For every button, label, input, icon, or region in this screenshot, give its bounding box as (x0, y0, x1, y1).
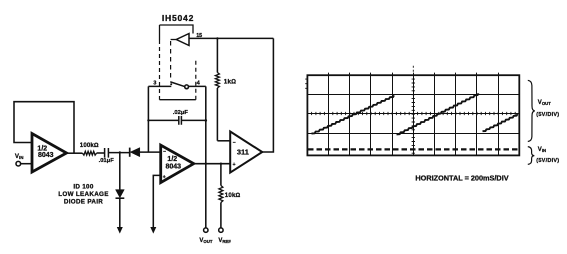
capacitor C1 .01uF (99, 148, 115, 164)
brace VIN (528, 147, 535, 165)
scope left-edge minor ticks (305, 79, 307, 88)
op-amp A1 1/2 8043 (32, 134, 67, 173)
svg-text:LOW LEAKAGE: LOW LEAKAGE (58, 191, 109, 198)
svg-text:8043: 8043 (166, 164, 182, 171)
svg-text:HORIZONTAL = 200mS/DIV: HORIZONTAL = 200mS/DIV (415, 173, 508, 182)
svg-text:VIN: VIN (15, 153, 24, 160)
scope vertical gridlines (329, 73, 499, 156)
wire pin3 vertical to A2 input node (147, 86, 149, 152)
wire switch pin4 side (189, 85, 206, 87)
svg-text:.02μF: .02μF (173, 110, 189, 116)
svg-text:(5V/DIV): (5V/DIV) (536, 158, 559, 164)
svg-text:100kΩ: 100kΩ (80, 142, 99, 149)
svg-text:1kΩ: 1kΩ (224, 79, 237, 86)
svg-text:DIODE PAIR: DIODE PAIR (64, 199, 103, 206)
label IH5042 (162, 13, 194, 23)
wire A2 + input to supply arrow (153, 175, 160, 227)
terminal VOUT (199, 228, 212, 244)
resistor 1kOhm (215, 38, 236, 140)
IH5042 package boundary (dashed box) (160, 25, 196, 100)
junction dot output node (205, 163, 207, 165)
junction dot at D2 branch (119, 151, 121, 153)
resistor 10kOhm (219, 164, 241, 228)
svg-text:10kΩ: 10kΩ (225, 192, 241, 199)
pin 15 label (196, 33, 202, 39)
svg-text:+: + (163, 174, 166, 180)
junction dot pin15/1k (216, 37, 218, 39)
svg-text:−: − (233, 140, 236, 146)
wire pin4 rail down to VOUT terminal (205, 86, 207, 228)
terminal VREF (218, 228, 231, 244)
junction dot C2 right (205, 119, 208, 122)
svg-text:1/2: 1/2 (167, 156, 177, 163)
label VOUT (5V/DIV) (536, 100, 559, 118)
svg-text:ID 100: ID 100 (73, 183, 94, 190)
dashed control line driver to switch (171, 40, 177, 82)
switch arm (170, 82, 185, 87)
switch contact circle (185, 85, 189, 89)
svg-text:311: 311 (237, 148, 249, 157)
wire switch pin3 side (148, 85, 171, 87)
waveform VOUT sawtooth ramp 1 (312, 95, 395, 133)
svg-text:VREF: VREF (218, 238, 231, 244)
label VIN (5V/DIV) (536, 147, 559, 164)
svg-text:8043: 8043 (38, 152, 54, 159)
wire VIN to A1 input (21, 163, 33, 165)
wire junction down to D2 (119, 153, 121, 190)
label ID 100 LOW LEAKAGE DIODE PAIR (58, 183, 109, 205)
svg-text:(5V/DIV): (5V/DIV) (536, 112, 559, 118)
label HORIZONTAL = 200mS/DIV (415, 173, 508, 182)
capacitor C2 .02uF (integrator feedback) (148, 110, 205, 125)
supply arrow (down) below D2 (117, 227, 123, 234)
scope graticule box (307, 75, 519, 155)
svg-text:.01μF: .01μF (99, 158, 115, 164)
wire 1k to 311 - input (217, 140, 230, 142)
scope center-axis minor ticks (horizontal axis) (312, 112, 516, 115)
waveform VOUT sawtooth ramp 2 (397, 93, 479, 134)
svg-text:VOUT: VOUT (199, 238, 212, 244)
diode D2 (shunt, ID100 pair) (116, 190, 125, 199)
wire 311 output to right rail up to pin15 (262, 38, 273, 152)
resistor 100kOhm (80, 142, 99, 155)
wire A1 output to 100k (67, 152, 83, 154)
wire A1 feedback loop (14, 102, 74, 154)
wire D1 to A2 inverting input (140, 151, 161, 153)
svg-text:IH5042: IH5042 (162, 13, 194, 23)
brace VOUT (528, 80, 535, 141)
pin 4 label (197, 81, 200, 87)
wire 100k to C1 (97, 152, 105, 154)
wire D2 to supply arrow (119, 198, 121, 227)
pin 3 label (153, 81, 156, 87)
svg-text:VOUT: VOUT (538, 100, 551, 106)
waveform VOUT sawtooth ramp 3 (483, 114, 518, 131)
scope horizontal gridlines (307, 95, 519, 134)
scope center-axis minor ticks (vertical axis) (412, 66, 415, 153)
wire C1 to diode D1 / junction (108, 152, 129, 154)
diode D1 (series, ID100 pair) (130, 148, 140, 157)
waveform VIN dashed trace (308, 148, 519, 150)
switch driver U1 (triangle) (176, 34, 189, 46)
comparator 311 (230, 132, 262, 173)
supply arrow (down) below A2 + input (150, 227, 156, 234)
wire pin15 to right rail (189, 37, 273, 39)
svg-text:−: − (163, 149, 166, 155)
wire A2 output to 311 + input (194, 163, 231, 165)
terminal VIN (15, 153, 24, 166)
svg-text:+: + (233, 162, 236, 168)
junction dot C2 left (147, 119, 149, 121)
junction dot 10k top (220, 163, 222, 165)
op-amp A2 1/2 8043 (integrator) (161, 145, 194, 182)
svg-text:VIN: VIN (538, 147, 546, 153)
